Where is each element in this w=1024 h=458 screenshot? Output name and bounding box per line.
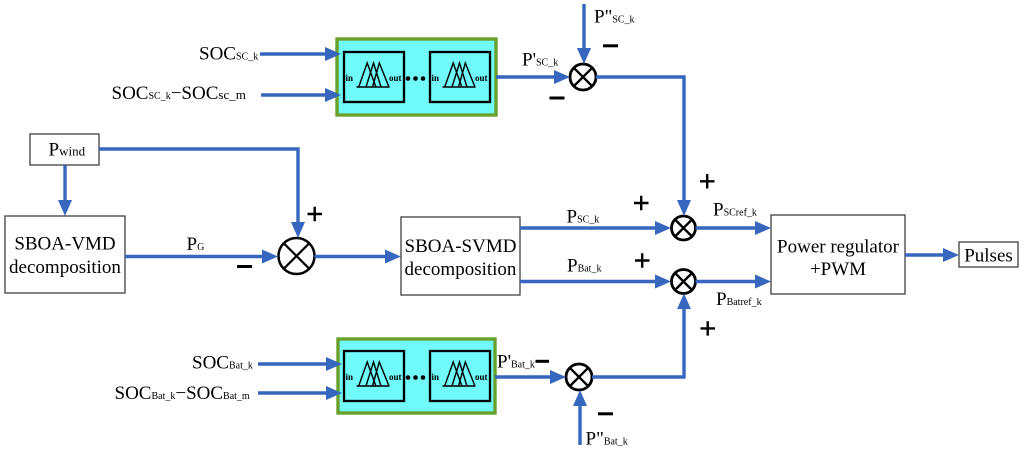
- fuzzy block F1 (top, green border cyan fill): [337, 39, 496, 115]
- fuzzy block F2 (bottom, green border cyan fill): [338, 339, 495, 413]
- fuzzy sub-box F1a: [344, 52, 404, 102]
- fuzzy sub-box F2b: [430, 351, 490, 401]
- svg-text:SOCSC_k: SOCSC_k: [199, 44, 258, 65]
- wire F1 to C1: [496, 70, 570, 84]
- wire C4 to Power regulator: [696, 275, 772, 289]
- minus at C1 top: [603, 44, 618, 47]
- wire SBOA-SVMD to C4: [520, 275, 671, 289]
- svg-text:SBOA-SVMD: SBOA-SVMD: [405, 236, 517, 257]
- wire Pwind down to SBOA-VMD: [58, 165, 72, 216]
- label P Batref_k: [716, 289, 762, 310]
- svg-text:Pulses: Pulses: [964, 246, 1013, 267]
- plus above C3: [700, 174, 715, 188]
- wire C1 to C3: [596, 77, 691, 216]
- label P' SC_k: [522, 49, 558, 70]
- svg-text:SOCSC_k−SOCsc_m: SOCSC_k−SOCsc_m: [112, 83, 246, 104]
- label SOC SC_k: [199, 44, 258, 65]
- svg-text:PG: PG: [187, 234, 205, 255]
- summing junction C1: [570, 64, 596, 90]
- wire SOCbatk to F2: [258, 357, 342, 371]
- svg-text:SBOA-VMD: SBOA-VMD: [14, 234, 115, 255]
- plus at C2: [308, 207, 323, 221]
- svg-text:out: out: [389, 372, 402, 382]
- minus right of C5 arrow: [598, 412, 613, 415]
- fuzzy sub-box F2a: [344, 351, 404, 401]
- label P Bat_k: [567, 255, 601, 276]
- svg-text:Power regulator: Power regulator: [777, 237, 900, 258]
- svg-text:out: out: [475, 372, 488, 382]
- block Power regulator +PWM: [771, 215, 905, 294]
- wire Pwind right to C2: [99, 149, 305, 238]
- wire SBOA-VMD to C2: [125, 250, 278, 264]
- minus at C1 bottom-left: [550, 97, 565, 100]
- svg-text:in: in: [432, 372, 440, 382]
- summing junction C4: [672, 270, 696, 294]
- svg-text:in: in: [432, 73, 440, 83]
- svg-text:SOCBat_k−SOCBat_m: SOCBat_k−SOCBat_m: [115, 383, 250, 404]
- block Pulses: [959, 242, 1018, 267]
- label P'' SC_k: [594, 7, 635, 28]
- wire SOCsck to F1: [260, 47, 341, 61]
- wire C5 to C4: [592, 294, 691, 378]
- svg-text:PBatref_k: PBatref_k: [716, 289, 762, 310]
- plus left of C3: [634, 196, 649, 210]
- svg-text:in: in: [346, 73, 354, 83]
- label P' Bat_k: [497, 351, 535, 372]
- svg-text:+PWM: +PWM: [810, 259, 866, 280]
- block SBOA-SVMD decomposition: [401, 217, 520, 295]
- summing junction C3: [672, 216, 696, 240]
- wire C3 to Power regulator: [696, 221, 772, 235]
- svg-text:PSCref_k: PSCref_k: [713, 199, 757, 220]
- dots between F2 sub-boxes: [406, 375, 426, 380]
- wire Power regulator to Pulses: [905, 248, 959, 262]
- minus at C2: [237, 265, 252, 268]
- wire C2 to SBOA-SVMD: [315, 250, 402, 264]
- svg-text:Pwind: Pwind: [49, 139, 86, 160]
- svg-text:out: out: [389, 73, 402, 83]
- svg-text:P'SC_k: P'SC_k: [522, 49, 558, 70]
- label P'' Bat_k: [586, 428, 628, 449]
- svg-text:SOCBat_k: SOCBat_k: [192, 353, 253, 374]
- svg-text:decomposition: decomposition: [405, 259, 517, 280]
- plus below C4: [701, 321, 716, 335]
- wire P''batk up to C5: [573, 390, 587, 445]
- label P G: [187, 234, 205, 255]
- plus left of C4: [635, 253, 650, 267]
- summing junction C5: [566, 364, 592, 390]
- label P SCref_k: [713, 199, 757, 220]
- svg-text:PBat_k: PBat_k: [567, 255, 601, 276]
- summing junction C2: [279, 238, 315, 274]
- label SOC Bat_k minus SOC Bat_m: [115, 383, 250, 404]
- svg-text:in: in: [346, 372, 354, 382]
- label SOC SC_k minus SOC sc_m: [112, 83, 246, 104]
- wire P''sck down to C1: [577, 4, 591, 64]
- svg-text:P"SC_k: P"SC_k: [594, 7, 635, 28]
- wire SOCsck-SOCscm to F1: [261, 88, 341, 102]
- block SBOA-VMD decomposition: [5, 216, 125, 293]
- svg-text:P'Bat_k: P'Bat_k: [497, 351, 535, 372]
- label P SC_k: [567, 206, 600, 227]
- wire SBOA-SVMD to C3: [520, 221, 671, 235]
- svg-text:decomposition: decomposition: [9, 257, 121, 278]
- wire F2 to C5: [495, 370, 566, 384]
- block Pwind: [30, 134, 99, 165]
- svg-text:P"Bat_k: P"Bat_k: [586, 428, 628, 449]
- minus after P' Bat_k: [536, 360, 550, 363]
- label SOC Bat_k: [192, 353, 253, 374]
- wire SOCbatk-SOCbatm to F2: [258, 386, 342, 400]
- svg-text:out: out: [475, 73, 488, 83]
- svg-text:PSC_k: PSC_k: [567, 206, 600, 227]
- dots between F1 sub-boxes: [406, 76, 426, 81]
- fuzzy sub-box F1b: [430, 52, 490, 102]
